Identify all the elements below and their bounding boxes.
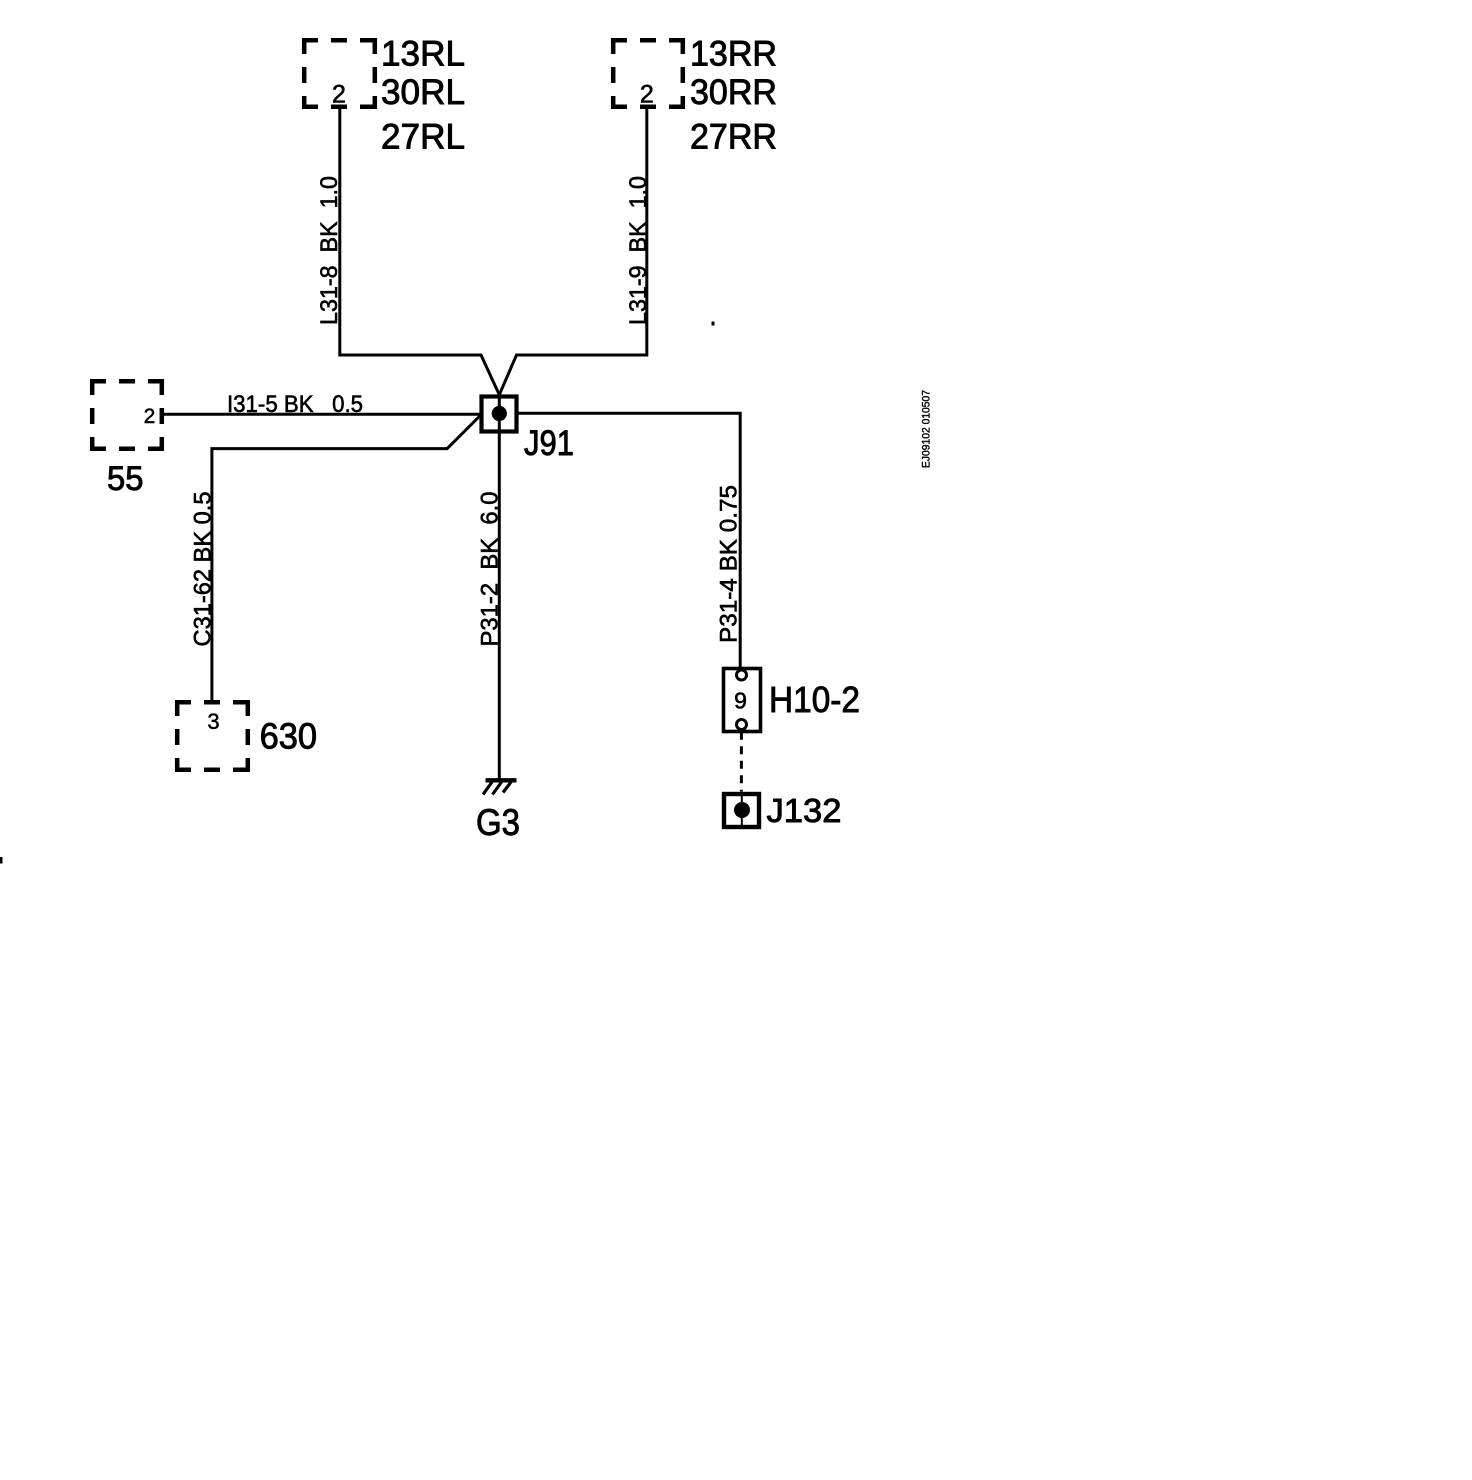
dashed wire from H10-2 to J132 <box>740 732 743 792</box>
svg-text:2: 2 <box>144 405 156 428</box>
wire L31-9 from 13RR pin 2 to junction J91 <box>499 107 647 395</box>
junction J132 box <box>724 794 759 827</box>
svg-text:G3: G3 <box>476 802 520 843</box>
wire P31-4 from junction J91 to connector H10-2 <box>518 413 740 668</box>
svg-text:9: 9 <box>734 688 747 714</box>
svg-text:P31-4 BK 0.75: P31-4 BK 0.75 <box>716 485 743 643</box>
svg-text:C31-62 BK 0.5: C31-62 BK 0.5 <box>190 492 217 647</box>
connector 630 dashed box <box>175 700 250 772</box>
svg-text:55: 55 <box>107 460 144 498</box>
connector 13RL/30RL/27RL dashed box <box>302 38 377 109</box>
svg-text:3: 3 <box>207 709 219 734</box>
svg-text:J132: J132 <box>767 792 842 829</box>
stray dot <box>712 322 715 326</box>
connector 55 dashed box <box>90 379 164 451</box>
junction J91 dot <box>492 406 507 421</box>
connector 13RR/30RR/27RR dashed box <box>611 38 685 109</box>
ground G3 symbol <box>483 780 517 794</box>
svg-text:27RL: 27RL <box>381 117 465 156</box>
svg-text:630: 630 <box>260 716 318 757</box>
svg-text:L31-9 BK 1.0: L31-9 BK 1.0 <box>625 176 652 325</box>
svg-text:EJ09102 010507: EJ09102 010507 <box>921 390 933 468</box>
pin circle top of H10-2 <box>737 670 747 680</box>
wire inside J132 <box>741 794 743 827</box>
svg-text:30RR: 30RR <box>690 73 777 112</box>
left edge mark <box>0 857 3 864</box>
svg-text:30RL: 30RL <box>381 73 465 112</box>
junction J132 dot <box>734 802 750 818</box>
svg-text:L31-8 BK 1.0: L31-8 BK 1.0 <box>316 176 343 325</box>
junction J91 box <box>482 397 517 432</box>
svg-text:P31-2 BK 6.0: P31-2 BK 6.0 <box>477 492 504 647</box>
pin circle bottom of H10-2 <box>737 720 747 730</box>
wire P31-2 from junction J91 down to ground G3 <box>498 395 501 779</box>
connector H10-2 box <box>724 669 761 732</box>
svg-text:2: 2 <box>640 81 654 109</box>
svg-text:27RR: 27RR <box>690 117 777 156</box>
svg-text:H10-2: H10-2 <box>769 679 860 720</box>
svg-text:13RR: 13RR <box>690 34 777 73</box>
wire branch from junction J91 to connector 630 <box>212 416 480 701</box>
wire I31-5 from connector 55 to junction J91 <box>164 413 480 416</box>
svg-text:2: 2 <box>332 81 346 109</box>
wire L31-8 from 13RL pin 2 to junction J91 <box>340 107 500 395</box>
svg-text:J91: J91 <box>524 424 574 463</box>
svg-text:I31-5 BK 0.5: I31-5 BK 0.5 <box>227 391 363 418</box>
svg-text:13RL: 13RL <box>381 34 465 73</box>
